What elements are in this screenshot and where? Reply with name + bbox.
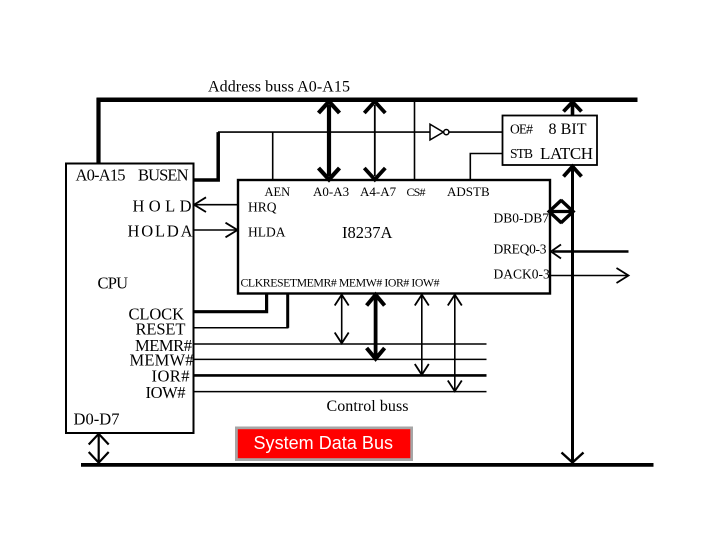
- svg-text:LATCH: LATCH: [540, 144, 593, 163]
- svg-text:A0-A3: A0-A3: [313, 184, 349, 199]
- svg-text:Control buss: Control buss: [327, 398, 409, 415]
- svg-text:A0-A15: A0-A15: [76, 165, 126, 184]
- svg-text:HOLDA: HOLDA: [128, 222, 193, 241]
- svg-text:CLKRESETMEMR# MEMW# IOR# IOW#: CLKRESETMEMR# MEMW# IOR# IOW#: [241, 276, 440, 290]
- svg-text:HOLD: HOLD: [133, 197, 192, 216]
- svg-text:Address buss A0-A15: Address buss A0-A15: [208, 79, 350, 96]
- svg-text:STB: STB: [510, 146, 533, 161]
- svg-text:CS#: CS#: [407, 185, 426, 199]
- svg-text:HLDA: HLDA: [248, 225, 286, 240]
- svg-text:DACK0-3: DACK0-3: [494, 267, 550, 282]
- svg-text:DREQ0-3: DREQ0-3: [494, 242, 547, 257]
- svg-text:HRQ: HRQ: [248, 200, 277, 215]
- svg-text:DB0-DB7: DB0-DB7: [494, 211, 550, 226]
- svg-text:D0-D7: D0-D7: [74, 410, 120, 429]
- svg-text:CPU: CPU: [98, 274, 129, 293]
- svg-text:I8237A: I8237A: [342, 223, 392, 242]
- svg-text:System Data Bus: System Data Bus: [254, 433, 394, 453]
- svg-text:AEN: AEN: [265, 185, 291, 199]
- svg-text:8 BIT: 8 BIT: [549, 121, 587, 138]
- svg-text:BUSEN: BUSEN: [138, 165, 189, 184]
- svg-text:A4-A7: A4-A7: [360, 184, 397, 199]
- svg-text:ADSTB: ADSTB: [447, 184, 490, 199]
- svg-text:OE#: OE#: [510, 122, 533, 137]
- svg-text:IOW#: IOW#: [146, 383, 186, 402]
